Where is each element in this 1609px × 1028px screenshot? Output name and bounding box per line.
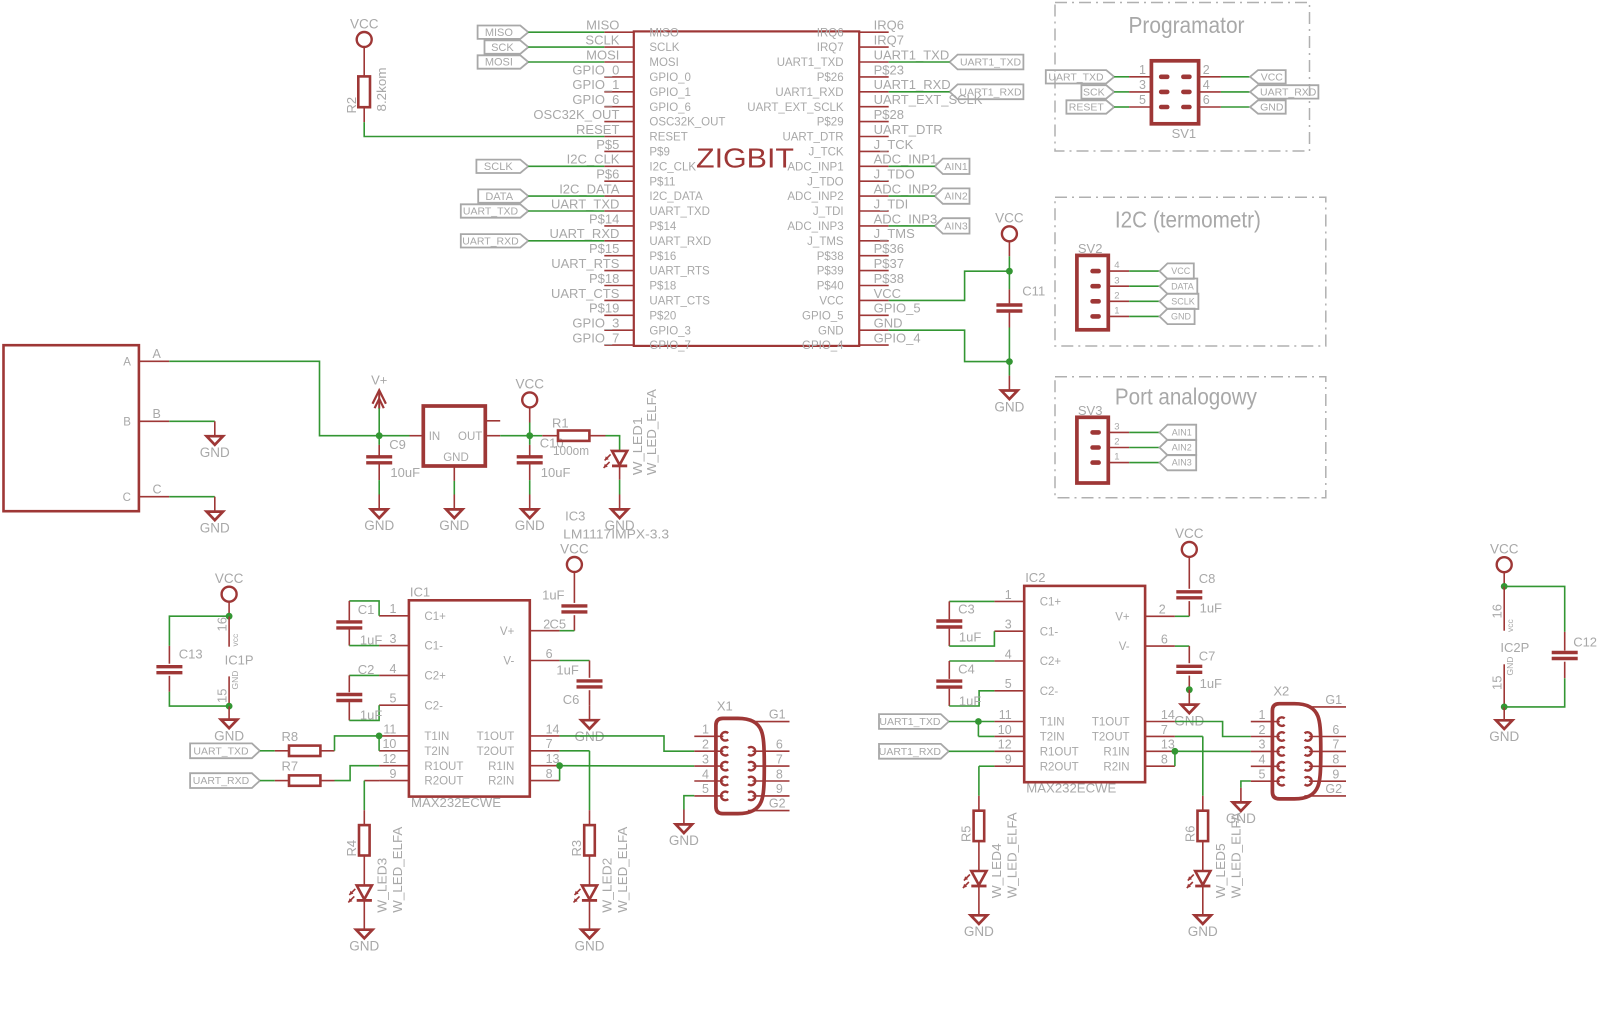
svg-text:9: 9 [1005, 753, 1012, 767]
svg-text:R3: R3 [569, 840, 584, 857]
svg-text:W_LED_ELFA: W_LED_ELFA [644, 389, 659, 475]
svg-text:DATA: DATA [485, 191, 513, 203]
svg-text:3: 3 [1114, 275, 1119, 286]
svg-text:I2C_DATA: I2C_DATA [559, 182, 620, 197]
svg-text:GPIO_7: GPIO_7 [649, 340, 691, 352]
svg-text:C7: C7 [1199, 649, 1216, 664]
svg-text:2: 2 [702, 738, 709, 752]
svg-text:C12: C12 [1573, 634, 1597, 649]
svg-text:P$15: P$15 [589, 241, 619, 256]
svg-text:2: 2 [1114, 437, 1119, 448]
svg-text:UART_RXD: UART_RXD [462, 235, 519, 247]
svg-text:C1: C1 [358, 602, 375, 617]
svg-text:UART_TXD: UART_TXD [193, 745, 249, 757]
svg-text:1uF: 1uF [542, 587, 564, 602]
svg-text:3: 3 [1139, 78, 1146, 92]
svg-text:GND: GND [575, 939, 605, 954]
svg-text:ADC_INP1: ADC_INP1 [874, 152, 938, 167]
svg-text:7: 7 [1332, 738, 1339, 752]
svg-text:SV3: SV3 [1078, 403, 1103, 418]
svg-text:GND: GND [1226, 811, 1256, 826]
svg-text:VCC: VCC [1175, 526, 1204, 541]
svg-text:C6: C6 [563, 692, 580, 707]
svg-text:4: 4 [1258, 753, 1265, 767]
svg-text:UART_DTR: UART_DTR [874, 122, 943, 137]
svg-text:P$16: P$16 [649, 251, 676, 263]
svg-text:P$14: P$14 [589, 211, 619, 226]
svg-text:UART_RXD: UART_RXD [193, 775, 250, 787]
svg-text:T1IN: T1IN [424, 731, 449, 743]
svg-text:GPIO_4: GPIO_4 [874, 331, 921, 346]
svg-text:6: 6 [1203, 93, 1210, 107]
svg-text:VCC: VCC [215, 571, 244, 586]
svg-text:SV2: SV2 [1078, 241, 1103, 256]
svg-text:I2C_CLK: I2C_CLK [649, 161, 696, 173]
svg-text:ADC_INP1: ADC_INP1 [787, 161, 843, 173]
svg-text:AIN1: AIN1 [1172, 428, 1192, 438]
svg-text:P$28: P$28 [874, 107, 904, 122]
svg-text:W_LED_ELFA: W_LED_ELFA [1005, 812, 1020, 898]
svg-text:1: 1 [1114, 306, 1119, 317]
svg-text:GND: GND [1171, 312, 1192, 322]
svg-text:ADC_INP3: ADC_INP3 [787, 221, 843, 233]
svg-text:SCLK: SCLK [1171, 296, 1195, 306]
svg-text:AIN3: AIN3 [1172, 458, 1192, 468]
svg-text:VCC: VCC [515, 377, 544, 392]
svg-text:UART1_TXD: UART1_TXD [879, 716, 940, 728]
svg-text:UART1_TXD: UART1_TXD [960, 57, 1021, 69]
svg-text:GND: GND [818, 325, 844, 337]
svg-text:SCLK: SCLK [484, 161, 513, 173]
svg-text:MISO: MISO [649, 27, 678, 39]
svg-text:6: 6 [1332, 723, 1339, 737]
svg-text:P$19: P$19 [589, 301, 619, 316]
svg-text:MAX232ECWE: MAX232ECWE [1026, 781, 1116, 796]
svg-text:C8: C8 [1199, 571, 1216, 586]
svg-text:P$26: P$26 [817, 72, 844, 84]
svg-text:G1: G1 [769, 708, 786, 722]
svg-text:T1IN: T1IN [1040, 717, 1065, 729]
svg-text:1uF: 1uF [959, 694, 981, 709]
svg-text:5: 5 [1139, 93, 1146, 107]
svg-text:R1IN: R1IN [488, 761, 514, 773]
svg-text:UART1_RXD: UART1_RXD [879, 746, 942, 758]
svg-text:ADC_INP2: ADC_INP2 [787, 191, 843, 203]
svg-text:GPIO_0: GPIO_0 [649, 72, 691, 84]
svg-text:R2IN: R2IN [488, 776, 514, 788]
svg-text:R2OUT: R2OUT [1040, 761, 1079, 773]
svg-text:IRQ6: IRQ6 [817, 27, 844, 39]
svg-text:W_LED5: W_LED5 [1213, 843, 1228, 898]
svg-text:16: 16 [215, 617, 230, 631]
svg-text:1: 1 [1258, 708, 1265, 722]
svg-text:C1-: C1- [1040, 626, 1059, 638]
svg-text:C13: C13 [179, 647, 203, 662]
svg-text:J_TMS: J_TMS [807, 236, 844, 248]
svg-text:14: 14 [546, 722, 560, 736]
svg-text:C2: C2 [358, 662, 375, 677]
svg-text:UART1_TXD: UART1_TXD [874, 47, 950, 62]
svg-text:R1IN: R1IN [1103, 746, 1129, 758]
svg-text:GND: GND [364, 518, 394, 533]
svg-text:J_TDI: J_TDI [874, 196, 909, 211]
svg-text:I2C (termometr): I2C (termometr) [1115, 207, 1261, 233]
svg-text:3: 3 [1114, 422, 1119, 433]
svg-text:GPIO_5: GPIO_5 [802, 310, 844, 322]
svg-text:J_TMS: J_TMS [874, 226, 916, 241]
svg-text:R7: R7 [282, 759, 299, 774]
svg-text:P$36: P$36 [874, 241, 904, 256]
svg-text:GND: GND [605, 518, 635, 533]
svg-text:3: 3 [1258, 738, 1265, 752]
svg-text:VCC: VCC [560, 541, 589, 556]
svg-text:UART_RTS: UART_RTS [551, 256, 619, 271]
svg-text:UART_RXD: UART_RXD [649, 236, 711, 248]
svg-text:R1OUT: R1OUT [424, 761, 463, 773]
svg-text:T1OUT: T1OUT [1092, 717, 1130, 729]
svg-text:2: 2 [1203, 63, 1210, 77]
svg-text:C3: C3 [958, 602, 975, 617]
svg-text:3: 3 [389, 632, 396, 646]
svg-text:UART_TXD: UART_TXD [551, 196, 619, 211]
svg-text:MOSI: MOSI [586, 47, 619, 62]
svg-text:SCK: SCK [491, 42, 514, 54]
svg-text:GPIO_1: GPIO_1 [572, 77, 619, 92]
svg-text:8.2kom: 8.2kom [374, 68, 389, 112]
svg-text:SCLK: SCLK [649, 42, 679, 54]
svg-text:4: 4 [702, 767, 709, 781]
svg-text:P$5: P$5 [596, 137, 619, 152]
svg-text:2: 2 [1159, 603, 1166, 617]
svg-text:GND: GND [443, 452, 469, 464]
svg-text:9: 9 [776, 782, 783, 796]
svg-text:T2OUT: T2OUT [1092, 732, 1130, 744]
svg-text:R4: R4 [344, 840, 359, 857]
svg-text:AIN2: AIN2 [1172, 443, 1192, 453]
svg-text:5: 5 [1258, 768, 1265, 782]
svg-text:UART1_RXD: UART1_RXD [874, 77, 951, 92]
svg-text:P$14: P$14 [649, 221, 676, 233]
svg-text:GND: GND [669, 833, 699, 848]
svg-text:C1-: C1- [424, 641, 443, 653]
svg-text:W_LED_ELFA: W_LED_ELFA [615, 826, 630, 912]
svg-text:G2: G2 [1325, 782, 1342, 796]
svg-text:AIN1: AIN1 [944, 161, 968, 173]
svg-text:ADC_INP3: ADC_INP3 [874, 211, 938, 226]
svg-text:RESET: RESET [649, 132, 687, 144]
svg-text:P$23: P$23 [874, 62, 904, 77]
svg-text:UART_RXD: UART_RXD [1260, 87, 1317, 99]
svg-text:P$40: P$40 [817, 281, 844, 293]
svg-text:GPIO_1: GPIO_1 [649, 87, 691, 99]
svg-text:12: 12 [382, 752, 396, 766]
svg-text:B: B [123, 416, 131, 428]
svg-text:SV1: SV1 [1172, 126, 1197, 141]
svg-text:C2+: C2+ [1040, 656, 1062, 668]
svg-text:T1OUT: T1OUT [477, 731, 515, 743]
svg-text:GND: GND [874, 316, 903, 331]
svg-text:GND: GND [349, 939, 379, 954]
svg-text:G1: G1 [1325, 693, 1342, 707]
svg-text:14: 14 [1161, 708, 1175, 722]
svg-text:15: 15 [1490, 676, 1505, 690]
svg-text:C2+: C2+ [424, 671, 446, 683]
svg-text:UART_TXD: UART_TXD [649, 206, 710, 218]
svg-text:VCC: VCC [1261, 71, 1284, 83]
svg-text:I2C_DATA: I2C_DATA [649, 191, 703, 203]
svg-text:W_LED_ELFA: W_LED_ELFA [390, 826, 405, 912]
svg-text:MISO: MISO [586, 18, 619, 33]
svg-text:GPIO_0: GPIO_0 [572, 62, 619, 77]
svg-text:9: 9 [1332, 768, 1339, 782]
svg-text:RESET: RESET [576, 122, 619, 137]
svg-text:VCC: VCC [350, 16, 379, 31]
svg-text:IC2P: IC2P [1500, 640, 1529, 655]
svg-text:A: A [123, 356, 131, 368]
svg-text:UART_CTS: UART_CTS [551, 286, 620, 301]
svg-text:V-: V- [503, 656, 514, 668]
svg-text:P$9: P$9 [649, 147, 669, 159]
svg-text:1: 1 [1139, 63, 1146, 77]
svg-text:9: 9 [389, 767, 396, 781]
svg-text:1: 1 [1114, 452, 1119, 463]
svg-text:C: C [123, 492, 131, 504]
svg-text:R5: R5 [959, 825, 974, 842]
svg-text:IC3: IC3 [565, 509, 585, 524]
svg-text:UART_DTR: UART_DTR [782, 132, 843, 144]
svg-text:W_LED3: W_LED3 [375, 858, 390, 913]
svg-text:W_LED4: W_LED4 [989, 843, 1004, 898]
svg-text:16: 16 [1490, 604, 1505, 618]
svg-text:IRQ7: IRQ7 [874, 33, 904, 48]
svg-text:OUT: OUT [458, 431, 482, 443]
svg-text:X2: X2 [1273, 684, 1289, 699]
svg-text:8: 8 [1161, 753, 1168, 767]
svg-text:7: 7 [1161, 723, 1168, 737]
svg-text:GND: GND [1188, 924, 1218, 939]
svg-text:6: 6 [776, 738, 783, 752]
svg-text:G2: G2 [769, 797, 786, 811]
svg-text:P$20: P$20 [649, 310, 676, 322]
svg-text:GND: GND [1260, 102, 1284, 114]
svg-text:GPIO_4: GPIO_4 [802, 340, 844, 352]
svg-text:C9: C9 [389, 437, 406, 452]
svg-text:UART_TXD: UART_TXD [463, 206, 519, 218]
svg-text:5: 5 [389, 692, 396, 706]
svg-text:VCC: VCC [874, 286, 901, 301]
svg-text:1: 1 [702, 723, 709, 737]
svg-text:11: 11 [383, 722, 396, 736]
svg-text:GND: GND [200, 520, 230, 535]
svg-text:R2OUT: R2OUT [424, 776, 463, 788]
svg-text:J_TDO: J_TDO [874, 167, 915, 182]
svg-text:GPIO_3: GPIO_3 [649, 325, 691, 337]
svg-text:GND: GND [964, 924, 994, 939]
svg-text:UART1_TXD: UART1_TXD [777, 57, 844, 69]
svg-text:GND: GND [1505, 657, 1515, 676]
svg-text:V+: V+ [500, 626, 515, 638]
svg-text:1uF: 1uF [556, 663, 578, 678]
svg-text:ADC_INP2: ADC_INP2 [874, 182, 938, 197]
svg-text:DATA: DATA [1171, 281, 1194, 291]
svg-text:R2IN: R2IN [1103, 761, 1129, 773]
svg-text:4: 4 [1005, 647, 1012, 661]
svg-text:1uF: 1uF [360, 708, 382, 723]
svg-text:ZIGBIT: ZIGBIT [696, 143, 794, 174]
svg-text:GPIO_6: GPIO_6 [572, 92, 619, 107]
svg-text:VCC: VCC [819, 296, 843, 308]
svg-text:V+: V+ [1115, 611, 1130, 623]
svg-text:IC1: IC1 [410, 584, 430, 599]
svg-text:UART_EXT_SCLK: UART_EXT_SCLK [747, 102, 844, 114]
svg-text:IRQ7: IRQ7 [817, 42, 844, 54]
svg-text:UART_CTS: UART_CTS [649, 296, 710, 308]
svg-text:IC2: IC2 [1025, 570, 1045, 585]
svg-text:GPIO_7: GPIO_7 [572, 331, 619, 346]
svg-text:P$39: P$39 [817, 266, 844, 278]
svg-text:UART1_RXD: UART1_RXD [959, 86, 1022, 98]
svg-text:1uF: 1uF [360, 633, 382, 648]
svg-text:P$6: P$6 [596, 167, 619, 182]
svg-text:J_TCK: J_TCK [808, 147, 843, 159]
svg-text:C11: C11 [1022, 284, 1045, 299]
svg-text:2: 2 [1258, 723, 1265, 737]
svg-text:R1OUT: R1OUT [1040, 746, 1079, 758]
svg-text:MISO: MISO [485, 27, 514, 39]
svg-text:P$11: P$11 [649, 176, 675, 188]
svg-text:UART_TXD: UART_TXD [1048, 71, 1104, 83]
svg-text:vcc: vcc [230, 633, 240, 647]
svg-text:J_TCK: J_TCK [874, 137, 914, 152]
svg-text:IC1P: IC1P [225, 653, 254, 668]
svg-text:P$38: P$38 [817, 251, 844, 263]
svg-text:OSC32K_OUT: OSC32K_OUT [649, 117, 725, 129]
svg-text:W_LED1: W_LED1 [630, 417, 645, 475]
svg-text:R8: R8 [282, 729, 299, 744]
svg-text:W_LED2: W_LED2 [600, 858, 615, 913]
svg-text:7: 7 [546, 737, 553, 751]
svg-text:Port analogowy: Port analogowy [1115, 384, 1257, 410]
svg-text:3: 3 [1005, 618, 1012, 632]
svg-text:1uF: 1uF [1200, 676, 1222, 691]
svg-text:8: 8 [546, 767, 553, 781]
svg-text:V-: V- [1119, 641, 1130, 653]
svg-text:I2C_CLK: I2C_CLK [567, 152, 620, 167]
svg-text:11: 11 [999, 708, 1012, 722]
svg-text:MAX232ECWE: MAX232ECWE [411, 795, 501, 810]
svg-text:P$29: P$29 [817, 117, 844, 129]
svg-text:SCK: SCK [1083, 87, 1105, 99]
svg-text:7: 7 [776, 752, 783, 766]
svg-text:GPIO_5: GPIO_5 [874, 301, 921, 316]
svg-text:C2-: C2- [1040, 686, 1059, 698]
svg-text:VCC: VCC [1490, 542, 1519, 557]
svg-text:VCC: VCC [995, 211, 1024, 226]
svg-text:T2IN: T2IN [1040, 732, 1065, 744]
svg-text:GND: GND [200, 445, 230, 460]
svg-text:V+: V+ [371, 372, 387, 387]
svg-text:GND: GND [439, 518, 469, 533]
svg-text:10uF: 10uF [390, 465, 420, 480]
svg-text:T2IN: T2IN [424, 746, 449, 758]
svg-text:C5: C5 [550, 616, 567, 631]
svg-text:GND: GND [994, 399, 1024, 414]
svg-text:15: 15 [215, 689, 230, 703]
svg-text:100om: 100om [553, 443, 589, 458]
svg-text:4: 4 [389, 662, 396, 676]
svg-text:J_TDI: J_TDI [813, 206, 844, 218]
svg-text:8: 8 [776, 767, 783, 781]
svg-text:C2-: C2- [424, 700, 443, 712]
svg-text:VCC: VCC [1171, 266, 1191, 276]
svg-text:C4: C4 [958, 662, 975, 677]
svg-text:GND: GND [515, 518, 545, 533]
svg-text:5: 5 [702, 782, 709, 796]
svg-text:1: 1 [1005, 588, 1012, 602]
svg-text:5: 5 [1005, 677, 1012, 691]
svg-text:UART_RXD: UART_RXD [550, 226, 620, 241]
svg-text:IN: IN [429, 431, 441, 443]
svg-text:MOSI: MOSI [649, 57, 678, 69]
svg-text:GPIO_6: GPIO_6 [649, 102, 691, 114]
svg-text:3: 3 [702, 752, 709, 766]
svg-text:4: 4 [1203, 78, 1210, 92]
svg-text:UART1_RXD: UART1_RXD [775, 87, 843, 99]
svg-text:IRQ6: IRQ6 [874, 18, 904, 33]
svg-text:RESET: RESET [1069, 102, 1105, 114]
svg-text:R2: R2 [344, 97, 359, 114]
svg-text:1: 1 [389, 602, 396, 616]
svg-text:A: A [153, 347, 162, 361]
svg-text:6: 6 [1161, 633, 1168, 647]
svg-text:R1: R1 [552, 416, 569, 431]
svg-text:10: 10 [998, 723, 1012, 737]
svg-text:R6: R6 [1183, 825, 1198, 842]
svg-text:Programator: Programator [1129, 12, 1245, 38]
svg-text:C1+: C1+ [424, 611, 446, 623]
svg-text:P$18: P$18 [649, 281, 676, 293]
svg-text:10: 10 [382, 737, 396, 751]
svg-text:GND: GND [230, 671, 240, 690]
svg-text:1uF: 1uF [1200, 601, 1222, 616]
svg-text:MOSI: MOSI [485, 57, 513, 69]
svg-text:1uF: 1uF [959, 630, 981, 645]
svg-text:2: 2 [543, 617, 550, 631]
svg-text:10uF: 10uF [541, 465, 571, 480]
svg-text:UART_RTS: UART_RTS [649, 266, 710, 278]
svg-text:AIN2: AIN2 [944, 191, 968, 203]
svg-text:X1: X1 [717, 698, 733, 713]
svg-text:C: C [153, 483, 162, 497]
svg-text:SCLK: SCLK [585, 33, 619, 48]
svg-text:2: 2 [1114, 290, 1119, 301]
svg-text:12: 12 [998, 738, 1012, 752]
svg-text:P$37: P$37 [874, 256, 904, 271]
svg-text:T2OUT: T2OUT [477, 746, 515, 758]
svg-text:GPIO_3: GPIO_3 [572, 316, 619, 331]
svg-text:C1+: C1+ [1040, 597, 1062, 609]
svg-text:P$38: P$38 [874, 271, 904, 286]
svg-text:vcc: vcc [1505, 619, 1515, 633]
svg-text:GND: GND [214, 728, 244, 743]
svg-text:B: B [153, 407, 161, 421]
svg-text:GND: GND [1489, 729, 1519, 744]
svg-text:8: 8 [1332, 753, 1339, 767]
svg-text:6: 6 [546, 647, 553, 661]
svg-text:J_TDO: J_TDO [807, 176, 843, 188]
svg-text:4: 4 [1114, 260, 1119, 271]
svg-text:AIN3: AIN3 [944, 221, 968, 233]
